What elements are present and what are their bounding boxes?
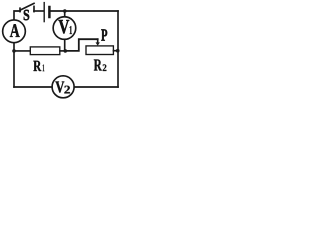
voltmeter V1 riser to top node <box>64 11 66 17</box>
label R1 R <box>33 61 41 71</box>
voltmeter V2 circle <box>52 76 74 98</box>
wire bottom left <box>14 86 52 88</box>
label V1 subscript 1 <box>70 26 72 34</box>
node dot at R2 right <box>116 49 120 53</box>
voltmeter V1 riser to R1 node <box>64 39 66 51</box>
voltmeter V1 circle <box>53 17 76 40</box>
label R1 subscript 1 <box>43 64 45 71</box>
wire bottom right <box>74 86 118 88</box>
label V1 V <box>58 20 69 34</box>
resistor R1 left stub <box>14 50 30 52</box>
wire top-left riser from ammeter <box>14 11 20 20</box>
slider arrowhead <box>96 42 100 45</box>
label R2 R <box>94 60 102 71</box>
label R2 subscript 2 <box>103 64 107 71</box>
switch S <box>19 8 21 11</box>
rheostat R2 right stub <box>114 50 118 52</box>
label P <box>101 29 107 40</box>
ammeter A circle <box>3 20 26 43</box>
rheostat R2 box <box>86 46 113 55</box>
node dot at R1 right / V1 <box>64 49 68 53</box>
node dot at battery / V1 top <box>63 9 67 13</box>
resistor R1 right stub <box>60 50 65 52</box>
wire left edge <box>13 43 15 87</box>
rheostat slider arrow <box>97 39 99 43</box>
battery cell: short plate <box>48 7 51 17</box>
node dot at R1 left <box>12 49 16 53</box>
label A <box>10 24 20 37</box>
wire junction to step <box>65 39 97 51</box>
label S <box>24 10 29 20</box>
wire right edge <box>117 11 119 87</box>
battery cell: long plate <box>43 3 45 22</box>
wire switch to battery <box>34 10 44 12</box>
wire battery to top-right corner <box>51 10 119 12</box>
label V2 subscript 2 <box>64 86 69 94</box>
label V2 V <box>55 82 64 93</box>
resistor R1 box <box>30 47 60 55</box>
